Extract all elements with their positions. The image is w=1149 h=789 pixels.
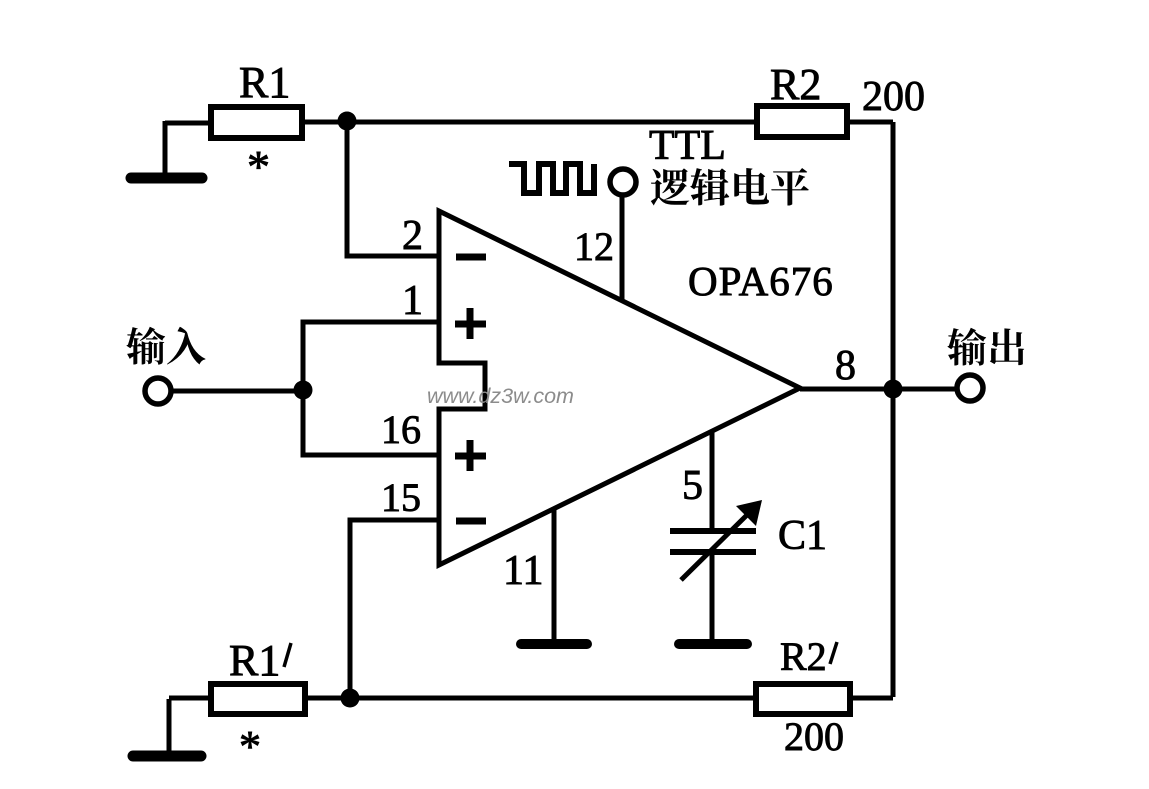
svg-text:R2: R2: [780, 634, 827, 679]
svg-text:2: 2: [402, 213, 423, 259]
svg-text:TTL: TTL: [649, 123, 726, 169]
svg-text:C1: C1: [778, 513, 827, 559]
svg-text:1: 1: [402, 278, 423, 324]
svg-text:*: *: [247, 141, 270, 192]
svg-text:8: 8: [835, 343, 856, 389]
svg-text:*: *: [239, 722, 261, 771]
svg-text:R2: R2: [770, 60, 821, 109]
svg-text:R1: R1: [239, 58, 290, 107]
svg-text:200: 200: [862, 74, 925, 120]
svg-text:12: 12: [574, 224, 614, 269]
svg-text:15: 15: [381, 475, 421, 520]
svg-text:OPA676: OPA676: [688, 258, 834, 304]
svg-text:www.dz3w.com: www.dz3w.com: [427, 384, 574, 408]
svg-text:11: 11: [503, 548, 543, 594]
svg-text:200: 200: [784, 714, 844, 759]
svg-text:16: 16: [381, 407, 421, 452]
svg-text:5: 5: [682, 463, 703, 509]
svg-text:R1: R1: [229, 636, 280, 685]
